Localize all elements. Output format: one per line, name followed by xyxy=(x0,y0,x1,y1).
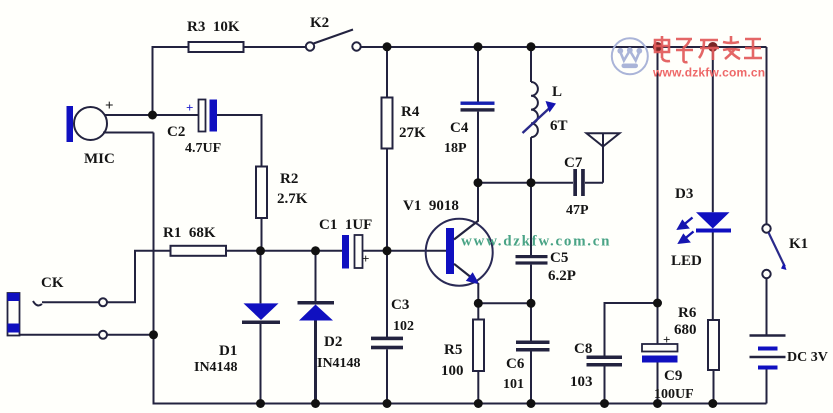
junction dots black xyxy=(148,42,717,408)
svg-text:D1: D1 xyxy=(219,343,237,359)
svg-text:+: + xyxy=(663,332,670,347)
wire CK sleeve xyxy=(20,334,100,336)
svg-text:R6: R6 xyxy=(678,305,697,321)
svg-text:C4: C4 xyxy=(450,120,469,136)
contact circle CK lower xyxy=(99,331,107,339)
svg-text:4.7UF: 4.7UF xyxy=(185,141,221,156)
svg-text:101: 101 xyxy=(503,377,524,392)
switch K2 xyxy=(306,30,361,51)
microphone MIC xyxy=(67,106,108,142)
wire right rail below battery xyxy=(766,369,768,404)
svg-text:R5: R5 xyxy=(444,342,462,358)
wire C9 branch vertical xyxy=(657,47,659,344)
svg-text:CK: CK xyxy=(41,275,64,291)
wire R2 bottom lead xyxy=(261,218,263,251)
wire mid rail C1 to base xyxy=(362,250,446,252)
LED D3 xyxy=(696,212,731,320)
inductor L xyxy=(531,47,538,183)
capacitor C2 xyxy=(199,100,218,132)
svg-text:102: 102 xyxy=(393,319,414,334)
svg-text:18P: 18P xyxy=(444,141,467,156)
svg-text:DC 3V: DC 3V xyxy=(787,350,828,365)
svg-text:27K: 27K xyxy=(399,125,426,141)
wire CK upper to R1 xyxy=(107,251,171,302)
svg-text:+: + xyxy=(362,251,369,266)
battery DC 3V xyxy=(750,336,786,370)
wire CK tip to contact xyxy=(42,301,99,303)
svg-text:C2: C2 xyxy=(167,124,185,140)
capacitor C8 xyxy=(587,303,658,404)
svg-text:D3: D3 xyxy=(675,186,693,202)
wire mid rail 2 xyxy=(478,182,573,184)
resistor R1 xyxy=(171,246,227,256)
svg-text:103: 103 xyxy=(570,374,593,390)
wire emitter rail xyxy=(478,302,531,304)
capacitor C3 xyxy=(371,251,403,404)
wire top rail right of K2 xyxy=(361,46,767,48)
svg-text:IN4148: IN4148 xyxy=(317,356,361,371)
wire left ground vertical xyxy=(153,133,155,404)
resistor R3 xyxy=(189,42,244,52)
diode D1 xyxy=(242,251,280,404)
svg-text:LED: LED xyxy=(671,253,702,269)
wire bottom rail xyxy=(153,403,767,405)
svg-text:C9: C9 xyxy=(664,368,682,384)
CK tip contact hook xyxy=(33,301,42,305)
watermark logo circle W xyxy=(612,38,648,74)
resistor R4 xyxy=(382,47,393,251)
svg-text:+: + xyxy=(186,100,193,115)
resistor R5 xyxy=(473,303,484,403)
capacitor C9 xyxy=(642,344,678,404)
svg-text:100: 100 xyxy=(441,363,464,379)
svg-text:R2: R2 xyxy=(280,171,298,187)
capacitor C6 xyxy=(516,303,550,403)
svg-text:MIC: MIC xyxy=(84,151,115,167)
resistor R6 xyxy=(708,320,719,404)
svg-text:680: 680 xyxy=(674,322,697,338)
contact circle CK upper xyxy=(99,298,107,306)
antenna xyxy=(587,133,620,182)
resistor R2 xyxy=(256,167,267,219)
junction dots maroon under watermark xyxy=(653,42,718,52)
capacitor C5 xyxy=(516,183,548,304)
svg-text:+: + xyxy=(105,98,114,114)
inductor L arrow xyxy=(523,101,557,133)
capacitor C7 xyxy=(573,169,603,196)
svg-text:2.7K: 2.7K xyxy=(277,191,308,207)
transistor V1 xyxy=(426,183,493,304)
wire right rail upper xyxy=(766,47,768,225)
svg-text:www.dzkfw.com.cn: www.dzkfw.com.cn xyxy=(461,234,611,250)
wire right rail lower xyxy=(766,278,768,336)
svg-text:R4: R4 xyxy=(401,104,420,120)
diode D2 xyxy=(298,251,335,404)
svg-text:K2: K2 xyxy=(310,15,329,31)
svg-text:C8: C8 xyxy=(574,341,592,357)
svg-text:K1: K1 xyxy=(789,236,808,252)
svg-text:C1 1UF: C1 1UF xyxy=(319,217,372,233)
connector CK jack xyxy=(8,293,20,336)
wire MIC plus lead xyxy=(104,114,198,116)
switch K1 xyxy=(762,224,786,278)
svg-text:IN4148: IN4148 xyxy=(194,360,238,375)
LED D3 branch top lead xyxy=(712,47,714,212)
wire MIC minus lead xyxy=(103,132,154,134)
svg-text:C3: C3 xyxy=(391,297,409,313)
svg-text:C7: C7 xyxy=(564,155,583,171)
svg-text:R1 68K: R1 68K xyxy=(163,225,216,241)
svg-text:V1 9018: V1 9018 xyxy=(403,198,459,214)
capacitor C4 xyxy=(461,47,495,183)
svg-text:C5: C5 xyxy=(550,250,568,266)
wire mid rail R1 to base xyxy=(226,250,342,252)
capacitor C1 xyxy=(342,235,363,269)
svg-text:C6: C6 xyxy=(506,356,525,372)
svg-text:47P: 47P xyxy=(566,203,589,218)
svg-text:D2: D2 xyxy=(324,334,342,350)
wire C2 to R2 xyxy=(217,115,262,167)
LED D3 light arrows xyxy=(679,218,694,243)
svg-text:6.2P: 6.2P xyxy=(548,268,576,284)
watermark red chinese characters xyxy=(655,36,762,62)
svg-text:www.dzkfw.com.cn: www.dzkfw.com.cn xyxy=(652,66,765,80)
wire top rail xyxy=(153,47,306,115)
wire CK lower to ground rail xyxy=(107,334,154,336)
svg-text:L: L xyxy=(552,84,562,100)
svg-text:6T: 6T xyxy=(550,118,568,134)
svg-text:R3 10K: R3 10K xyxy=(187,19,240,35)
